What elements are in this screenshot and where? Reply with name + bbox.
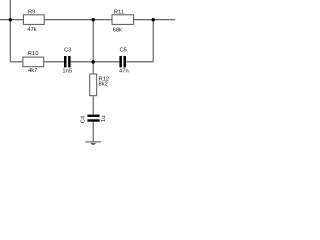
svg-text:8k2: 8k2 bbox=[99, 81, 108, 87]
svg-text:68k: 68k bbox=[113, 27, 122, 33]
svg-text:C3: C3 bbox=[64, 47, 71, 53]
svg-text:R11: R11 bbox=[114, 10, 124, 16]
svg-text:C4: C4 bbox=[81, 115, 87, 123]
svg-text:47k: 47k bbox=[27, 27, 36, 33]
svg-text:R10: R10 bbox=[28, 51, 39, 57]
svg-text:1n5: 1n5 bbox=[62, 69, 72, 75]
svg-text:47n: 47n bbox=[119, 69, 129, 75]
svg-text:4k7: 4k7 bbox=[28, 68, 37, 74]
svg-text:R9: R9 bbox=[28, 10, 35, 16]
svg-text:C5: C5 bbox=[120, 47, 127, 53]
svg-text:1u: 1u bbox=[101, 116, 107, 122]
